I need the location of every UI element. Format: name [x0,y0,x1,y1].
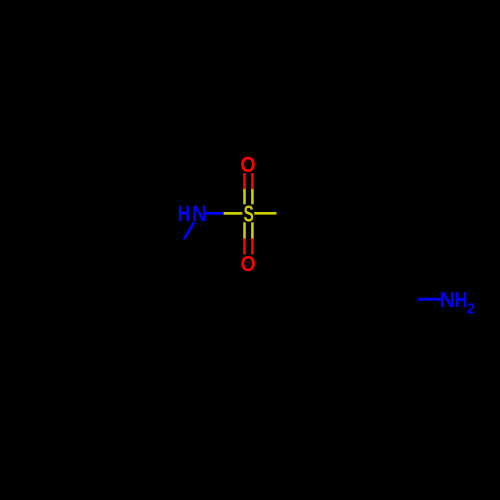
bond S=O2 double bond, O half (red), line 2 [251,239,254,255]
atom N1 label H of HN (sulfonamide nitrogen) [179,206,189,221]
atom N1 label N of HN [193,206,205,221]
atom N2 subscript 2 [467,303,474,313]
atom O1 (top oxygen) [241,157,255,172]
bond S=O2 double bond, O half (red), line 1 [243,239,246,255]
bond S=O2 double bond, S half (yellow), line 2 [251,222,254,238]
bond N1-C (diagonal, N half blue) [184,222,194,239]
bond S=O1 double bond, S half (yellow), line 1 [243,189,246,204]
bond C-N2 (blue half, to amine) [418,298,441,301]
bond S=O1 double bond, S half (yellow), line 2 [251,189,254,204]
bond S=O1 double bond, O half (red), line 1 [243,173,246,189]
bond N1-S, N half (blue) [206,212,224,215]
atom S (sulfur) [244,206,253,222]
bond S=O2 double bond, S half (yellow), line 1 [243,222,246,238]
bond N1-S, S half (yellow) [224,212,243,215]
bond S-C (right, S half yellow) [254,212,276,215]
bond S=O1 double bond, O half (red), line 2 [251,173,254,189]
atom O2 (bottom oxygen) [241,256,254,271]
atom N2 label N of NH2 (aromatic amine) [441,292,454,307]
atom N2 label H of NH2 [456,292,466,307]
